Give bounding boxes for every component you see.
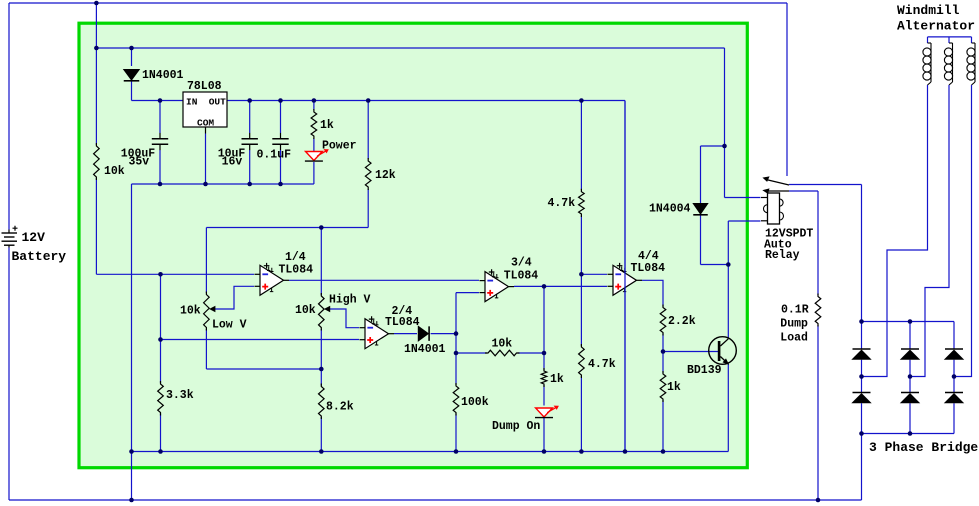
svg-text:Dump: Dump	[780, 318, 808, 331]
svg-text:35v: 35v	[129, 156, 150, 169]
svg-text:Relay: Relay	[765, 249, 800, 262]
svg-text:1N4001: 1N4001	[142, 69, 184, 82]
svg-text:Load: Load	[780, 332, 808, 345]
svg-text:4.7k: 4.7k	[588, 358, 616, 371]
svg-text:1N4004: 1N4004	[649, 203, 691, 216]
svg-text:16v: 16v	[222, 156, 243, 169]
svg-text:High V: High V	[329, 294, 371, 307]
svg-text:3/4: 3/4	[511, 257, 532, 270]
svg-text:4.7k: 4.7k	[548, 197, 576, 210]
svg-text:1k: 1k	[550, 373, 564, 386]
svg-text:10k: 10k	[295, 304, 316, 317]
svg-text:12k: 12k	[375, 169, 396, 182]
svg-text:1k: 1k	[667, 381, 681, 394]
svg-text:TL084: TL084	[504, 269, 539, 282]
svg-text:3.3k: 3.3k	[166, 389, 194, 402]
svg-text:100k: 100k	[461, 396, 489, 409]
svg-text:2.2k: 2.2k	[668, 315, 696, 328]
svg-text:1/4: 1/4	[285, 251, 306, 264]
svg-text:78L08: 78L08	[187, 80, 222, 93]
svg-text:1k: 1k	[320, 119, 334, 132]
svg-text:0.1R: 0.1R	[781, 304, 809, 317]
svg-text:10k: 10k	[104, 165, 125, 178]
svg-text:TL084: TL084	[385, 316, 420, 329]
svg-text:8.2k: 8.2k	[326, 401, 354, 414]
svg-text:10k: 10k	[180, 305, 201, 318]
svg-text:0.1uF: 0.1uF	[257, 149, 292, 162]
svg-text:TL084: TL084	[279, 263, 314, 276]
svg-text:OUT: OUT	[209, 96, 226, 107]
svg-text:COM: COM	[197, 117, 214, 128]
svg-text:Dump On: Dump On	[492, 420, 540, 433]
svg-text:TL084: TL084	[631, 262, 666, 275]
svg-text:BD139: BD139	[687, 364, 722, 377]
svg-text:IN: IN	[186, 96, 198, 107]
svg-text:10k: 10k	[492, 338, 513, 351]
svg-text:Power: Power	[322, 140, 357, 153]
svg-text:1N4001: 1N4001	[404, 343, 446, 356]
svg-text:Alternator: Alternator	[897, 19, 975, 34]
svg-text:Battery: Battery	[12, 249, 67, 264]
svg-text:Low V: Low V	[212, 319, 247, 332]
svg-text:12V: 12V	[22, 230, 46, 245]
svg-text:3 Phase Bridge: 3 Phase Bridge	[869, 440, 978, 455]
svg-text:Windmill: Windmill	[897, 3, 960, 18]
